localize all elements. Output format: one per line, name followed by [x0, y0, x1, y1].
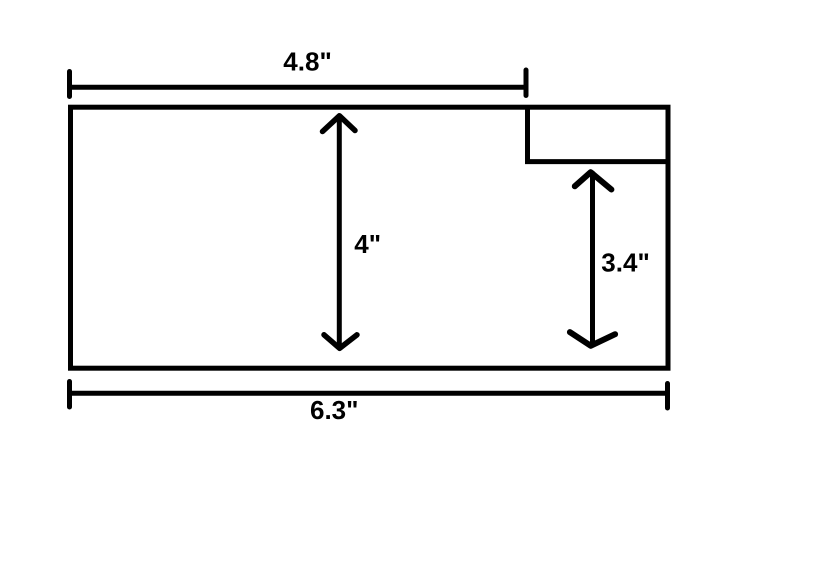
dimension line 6.3 (bottom)	[70, 382, 668, 409]
svg-text:4": 4"	[354, 229, 381, 259]
svg-text:4.8": 4.8"	[283, 47, 331, 77]
svg-text:6.3": 6.3"	[310, 395, 358, 425]
notch rectangle (top-right step)	[528, 106, 671, 162]
dimension line 4.8 (top)	[70, 70, 527, 97]
main rectangle outline	[71, 107, 669, 368]
double arrow 3.4" (vertical, right)	[570, 172, 615, 346]
svg-text:3.4": 3.4"	[601, 248, 649, 278]
double arrow 4" (vertical, middle)	[323, 116, 358, 348]
